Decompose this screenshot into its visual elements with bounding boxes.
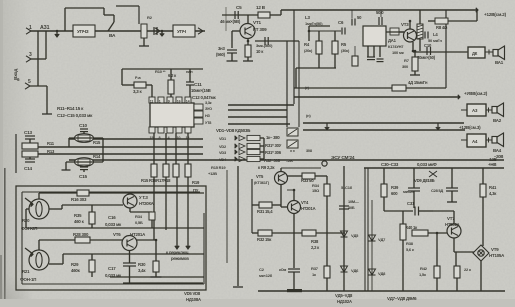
svg-text:режимов: режимов — [171, 256, 189, 261]
svg-text:10 к: 10 к — [256, 49, 264, 54]
svg-text:ВА1: ВА1 — [495, 60, 504, 65]
svg-text:10мк×(15В: 10мк×(15В — [191, 88, 211, 93]
svg-text:ЗУО: ЗУО — [205, 107, 212, 111]
svg-text:50,0: 50,0 — [376, 10, 384, 15]
svg-text:3: 3 — [29, 52, 32, 58]
svg-text:VT6: VT6 — [113, 232, 121, 237]
svg-text:VT4: VT4 — [301, 200, 309, 205]
svg-text:40Б: 40Б — [348, 205, 355, 210]
svg-text:(20к): (20к) — [304, 48, 313, 53]
svg-text:3,4к: 3,4к — [138, 268, 146, 273]
svg-text:R32 15к: R32 15к — [257, 237, 272, 242]
svg-text:R34: R34 — [135, 214, 143, 219]
svg-text:3н3: 3н3 — [218, 46, 225, 51]
svg-text:VД8: VД8 — [378, 271, 386, 276]
svg-text:НТ201А: НТ201А — [130, 232, 146, 237]
svg-text:R14: R14 — [93, 154, 101, 159]
svg-text:R4: R4 — [304, 42, 310, 47]
svg-text:5: 5 — [28, 79, 31, 85]
svg-text:VT7: VT7 — [447, 216, 455, 221]
svg-text:1к: 1к — [312, 272, 316, 277]
svg-text:600: 600 — [391, 191, 398, 196]
svg-text:НТ20КА: НТ20КА — [139, 201, 154, 206]
svg-text:С10: С10 — [424, 43, 432, 48]
svg-text:15Ω: 15Ω — [312, 188, 320, 193]
svg-text:R35: R35 — [74, 213, 82, 218]
svg-text:0,033 мк: 0,033 мк — [105, 222, 122, 227]
svg-text:С10: С10 — [79, 123, 87, 128]
svg-text:VD3: VD3 — [219, 150, 227, 155]
svg-text:(30к): (30к) — [341, 48, 350, 53]
svg-text:VT1: VT1 — [253, 20, 261, 25]
svg-text:VD4: VD4 — [219, 157, 227, 162]
svg-text:ВА: ВА — [109, 33, 116, 39]
svg-text:+НВ: +НВ — [488, 162, 496, 167]
svg-text:308: 308 — [306, 149, 312, 153]
svg-text:VD1: VD1 — [219, 136, 227, 141]
svg-text:мк×12б: мк×12б — [259, 273, 273, 278]
svg-text:VТ9: VТ9 — [491, 247, 499, 252]
svg-text:VT3: VT3 — [401, 22, 409, 27]
svg-text:–2В: –2В — [286, 158, 293, 163]
svg-text:НТ201А: НТ201А — [301, 206, 316, 211]
svg-text:R32* 308: R32* 308 — [264, 158, 281, 163]
svg-text:С13: С13 — [24, 130, 32, 135]
svg-text:R10 **: R10 ** — [155, 69, 166, 74]
svg-text:R13: R13 — [47, 149, 55, 154]
svg-text:1к– 380: 1к– 380 — [266, 135, 280, 140]
svg-text:2,2 к: 2,2 к — [311, 245, 320, 250]
svg-text:ДК: ДК — [472, 51, 478, 56]
svg-text:А4: А4 — [472, 139, 478, 144]
svg-text:R5: R5 — [341, 42, 347, 47]
svg-text:R37: R37 — [311, 266, 319, 271]
svg-text:R21: R21 — [22, 269, 30, 274]
svg-text:С17: С17 — [108, 266, 116, 271]
svg-text:R15: R15 — [93, 140, 101, 145]
svg-text:R20: R20 — [22, 218, 30, 223]
svg-text:С30–С33: С30–С33 — [381, 162, 399, 167]
svg-text:+12В: +12В — [208, 171, 217, 176]
svg-text:VD2: VD2 — [219, 144, 227, 149]
svg-text:У Т.З: У Т.З — [139, 195, 148, 200]
svg-text:R30: R30 — [138, 262, 146, 267]
svg-text:ВА2: ВА2 — [493, 118, 502, 123]
svg-text:16: 16 — [177, 100, 181, 104]
svg-text:3,3к: 3,3к — [205, 101, 212, 105]
svg-text:R19: R19 — [192, 180, 200, 185]
svg-text:R40 1к: R40 1к — [405, 225, 418, 230]
svg-text:А3: А3 — [472, 108, 478, 113]
svg-text:R15 R19: R15 R19 — [211, 165, 226, 170]
svg-text:НД108А: НД108А — [186, 297, 201, 302]
svg-text:УПЧ: УПЧ — [177, 29, 186, 34]
svg-text:К174УН7: К174УН7 — [388, 44, 404, 49]
svg-text:460 к: 460 к — [74, 219, 85, 224]
svg-text:51С1б: 51С1б — [341, 185, 353, 190]
svg-text:R31* 30У: R31* 30У — [265, 143, 282, 148]
svg-text:(560): (560) — [216, 52, 226, 57]
svg-text:ДА1: ДА1 — [388, 38, 397, 43]
svg-text:0,5Б: 0,5Б — [135, 220, 143, 225]
svg-text:300: 300 — [402, 64, 409, 69]
svg-text:22 к: 22 к — [464, 267, 471, 272]
svg-text:Р-в: Р-в — [135, 76, 141, 80]
svg-text:+12В(см.2): +12В(см.2) — [484, 12, 507, 17]
svg-text:НД102А: НД102А — [337, 299, 352, 304]
svg-text:46 мк×(5В): 46 мк×(5В) — [220, 19, 241, 24]
svg-text:VД5: VД5 — [351, 233, 359, 238]
svg-text:+12В(см.3): +12В(см.3) — [459, 125, 481, 130]
svg-text:R16 303: R16 303 — [71, 197, 87, 202]
svg-text:1: 1 — [29, 25, 32, 31]
svg-text:R31 15,4: R31 15,4 — [257, 209, 273, 214]
svg-text:1мкГн(5б): 1мкГн(5б) — [305, 21, 323, 26]
svg-text:УТ8: УТ8 — [205, 121, 211, 125]
svg-text:5,6 к: 5,6 к — [406, 247, 414, 252]
svg-text:6,2 к: 6,2 к — [168, 73, 177, 78]
svg-text:С6: С6 — [338, 20, 344, 25]
svg-text:4Д 15мкГн: 4Д 15мкГн — [408, 80, 428, 85]
svg-text:12 В: 12 В — [256, 5, 266, 10]
svg-text:НЗ: НЗ — [205, 114, 211, 118]
svg-text:С31: С31 — [407, 201, 415, 206]
svg-text:L3: L3 — [305, 15, 310, 20]
svg-text:ВА4: ВА4 — [493, 148, 502, 153]
svg-text:VД7–VД8 Д9И6: VД7–VД8 Д9И6 — [387, 296, 417, 301]
svg-text:1: 1 — [159, 100, 161, 104]
svg-text:14: 14 — [186, 100, 190, 104]
svg-text:VD1–VD8 КД503Б: VD1–VD8 КД503Б — [216, 128, 250, 133]
svg-text:С11: С11 — [194, 82, 202, 87]
svg-text:С12–С15 0,033 мк: С12–С15 0,033 мк — [57, 113, 93, 118]
svg-text:VД6: VД6 — [351, 268, 359, 273]
svg-text:–20В: –20В — [494, 154, 503, 159]
svg-text:С5: С5 — [236, 5, 242, 10]
svg-text:ФОН-2П: ФОН-2П — [21, 226, 37, 231]
svg-text:(КТ361Г): (КТ361Г) — [254, 180, 270, 185]
svg-text:R8 4Ω: R8 4Ω — [436, 25, 448, 30]
svg-text:НТ105А: НТ105А — [489, 253, 505, 258]
svg-text:460к: 460к — [71, 268, 81, 273]
svg-text:R39: R39 — [391, 185, 399, 190]
svg-text:+УВВ(см.2): +УВВ(см.2) — [464, 91, 488, 96]
svg-text:R42: R42 — [420, 266, 428, 271]
svg-text:10М—: 10М— — [348, 199, 359, 204]
svg-text:УПЧЗ: УПЧЗ — [77, 29, 89, 34]
svg-text:R41: R41 — [489, 185, 497, 190]
svg-text:мкС29: мкС29 — [403, 189, 415, 194]
svg-text:АЗ1: АЗ1 — [40, 25, 50, 31]
svg-text:С15: С15 — [79, 174, 87, 179]
svg-text:VT5: VT5 — [256, 174, 264, 179]
svg-text:R31* 306: R31* 306 — [265, 150, 282, 155]
svg-text:R38: R38 — [406, 241, 414, 246]
svg-text:к R9 2,2к: к R9 2,2к — [258, 165, 275, 170]
svg-text:С28 5Д: С28 5Д — [431, 188, 443, 193]
svg-text:0,033 мкФ: 0,033 мкФ — [417, 162, 437, 167]
svg-text:R28 300: R28 300 — [73, 232, 89, 237]
svg-text:R38: R38 — [311, 239, 319, 244]
svg-text:С16: С16 — [108, 215, 116, 220]
svg-text:100 мк: 100 мк — [392, 50, 404, 55]
svg-text:11: 11 — [150, 100, 154, 104]
svg-text:R29: R29 — [71, 262, 79, 267]
svg-text:С12 0,047мк: С12 0,047мк — [192, 95, 217, 100]
svg-text:4,3к: 4,3к — [489, 191, 497, 196]
svg-text:20мк×(50): 20мк×(50) — [417, 55, 436, 60]
svg-text:VD9 Д818Б: VD9 Д818Б — [414, 178, 435, 183]
svg-text:кОм: кОм — [279, 268, 286, 272]
svg-text:ФОН-1П: ФОН-1П — [20, 277, 36, 282]
svg-text:VД5–VД8: VД5–VД8 — [335, 293, 353, 298]
svg-text:С14: С14 — [24, 166, 32, 171]
svg-text:R11–R14 15 к: R11–R14 15 к — [57, 106, 84, 111]
svg-text:3,3 к: 3,3 к — [133, 89, 143, 94]
svg-text:R11: R11 — [47, 141, 55, 146]
svg-text:9: 9 — [168, 100, 170, 104]
svg-text:1,5к: 1,5к — [419, 272, 426, 277]
svg-text:VД7: VД7 — [378, 237, 386, 242]
svg-text:VD5 VD8: VD5 VD8 — [184, 291, 201, 296]
